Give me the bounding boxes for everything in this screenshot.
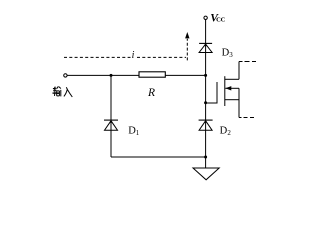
char ru [64,87,72,97]
MOSFET Q1: source lead [225,88,254,117]
dashed current path i [64,39,187,61]
diode D1 (ground to input node) [104,120,118,130]
MOSFET Q1: gate lead [206,102,217,104]
node: ground junction [204,156,207,159]
D1 label [128,125,140,137]
wire: main vertical (Vcc to ground) [205,20,207,169]
resistor R [139,72,165,77]
D2 label [220,125,232,137]
Vcc terminal [204,16,207,19]
ground [193,168,219,180]
i label [132,50,135,61]
node: gate-branch junction on main vertical [204,74,207,77]
current arrowhead [185,32,189,38]
wire: left branch vertical [110,75,112,157]
char shu (simplified strokes) [53,86,61,96]
wire: input to resistor [67,74,139,76]
Vcc label [210,12,225,24]
MOSFET Q1: drain lead [225,62,256,80]
node: input branch junction [110,74,113,77]
svg-text:R: R [147,87,155,99]
D3 label [222,48,234,60]
svg-text:1: 1 [136,129,140,137]
diode D2 (ground to gate node) [199,120,213,130]
svg-text:CC: CC [216,16,225,23]
wire: resistor to gate node [165,74,205,76]
MOSFET Q1: body arrow [225,86,239,90]
input label (Chinese: shu ru) [53,86,73,97]
input terminal [64,74,67,77]
R label [147,87,155,99]
svg-text:i: i [132,50,135,61]
node: gate lead junction [204,101,207,104]
MOSFET Q1: gate plate [216,82,218,104]
wire: bottom horizontal [111,156,206,158]
svg-text:2: 2 [227,129,231,137]
MOSFET Q1: channel plate [224,76,226,106]
svg-text:3: 3 [229,51,233,59]
diode D3 (gate node to Vcc) [199,43,212,52]
svg-text:D: D [220,125,228,136]
